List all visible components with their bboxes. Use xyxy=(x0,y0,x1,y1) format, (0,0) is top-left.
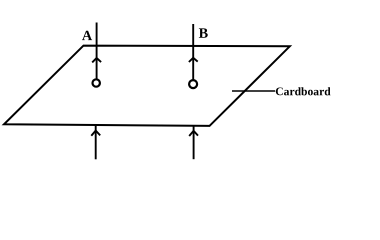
svg-text:A: A xyxy=(82,28,93,44)
svg-text:B: B xyxy=(199,26,209,42)
svg-text:Cardboard: Cardboard xyxy=(275,85,331,98)
